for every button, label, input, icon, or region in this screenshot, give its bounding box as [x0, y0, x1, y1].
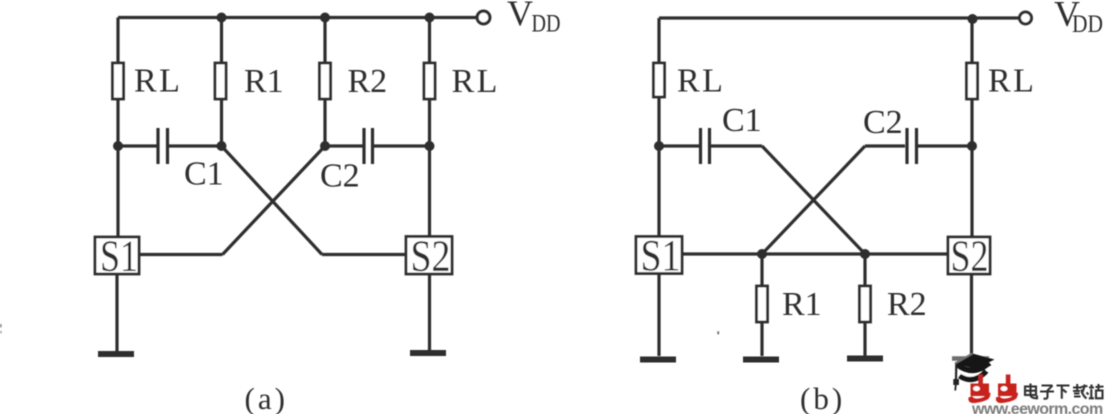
- svg-text:C2: C2: [320, 158, 360, 195]
- svg-text:DD: DD: [1072, 11, 1103, 38]
- svg-text:RL: RL: [677, 63, 725, 100]
- svg-text:R2: R2: [887, 286, 927, 323]
- svg-text:S1: S1: [641, 231, 681, 280]
- svg-text:(b): (b): [800, 381, 845, 414]
- svg-text:C1: C1: [184, 156, 224, 193]
- svg-text:www.eeworm.com: www.eeworm.com: [971, 401, 1103, 414]
- svg-text:S1: S1: [100, 232, 138, 281]
- svg-text:S2: S2: [951, 232, 989, 281]
- svg-text:R1: R1: [782, 286, 822, 323]
- svg-text:RL: RL: [134, 63, 182, 100]
- svg-text:C2: C2: [863, 104, 903, 141]
- svg-text:V: V: [507, 0, 533, 33]
- svg-text:RL: RL: [452, 63, 500, 100]
- svg-text:DD: DD: [532, 11, 561, 38]
- svg-text:RL: RL: [988, 63, 1036, 100]
- svg-text:R1: R1: [244, 63, 284, 100]
- svg-text:C1: C1: [722, 102, 762, 139]
- svg-text:R2: R2: [348, 63, 388, 100]
- svg-text:(a): (a): [245, 381, 288, 414]
- svg-text:S2: S2: [411, 232, 451, 281]
